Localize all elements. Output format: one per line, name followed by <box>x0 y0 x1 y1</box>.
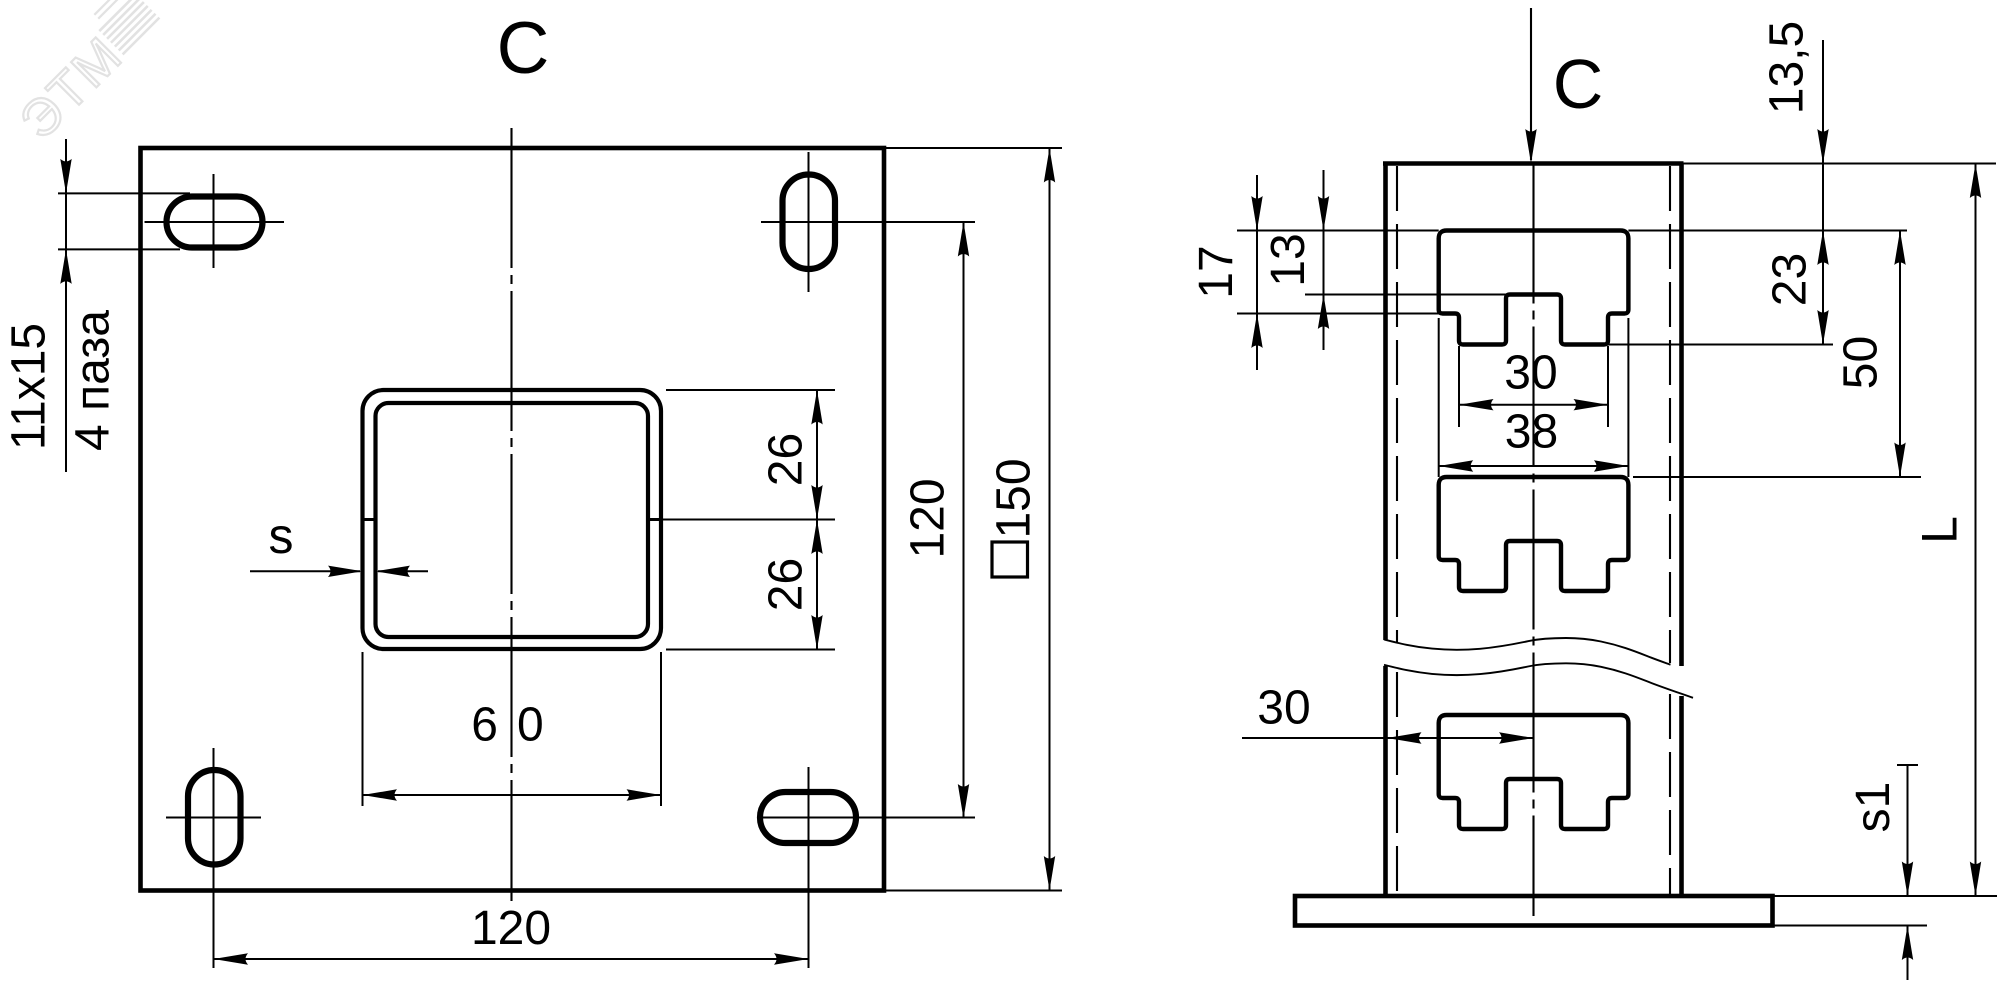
svg-text:s1: s1 <box>1847 782 1900 833</box>
square tube inner <box>376 403 649 637</box>
slot BL <box>188 770 241 865</box>
column right edge <box>1679 164 1684 897</box>
dim 60 extension lines <box>363 652 662 806</box>
dim 13 <box>1323 170 1325 350</box>
svg-text:120: 120 <box>902 478 955 558</box>
slot BL cross <box>166 748 261 968</box>
dim 150 extension lines <box>884 148 1062 891</box>
svg-text:38: 38 <box>1505 406 1558 459</box>
plate outline <box>141 148 885 891</box>
ext top edge right <box>1684 163 1997 165</box>
center line vertical <box>510 128 512 901</box>
ext base bottom right <box>1773 925 1928 927</box>
ext crown1 top left <box>1237 230 1439 232</box>
dim 120 bottom <box>214 958 809 960</box>
ext step left <box>1237 313 1459 315</box>
column top edge <box>1383 161 1684 166</box>
svg-text:s: s <box>269 508 294 564</box>
svg-text:11x15: 11x15 <box>3 323 56 450</box>
svg-text:150: 150 <box>988 458 1041 538</box>
dim 30 crown3 <box>1242 737 1534 739</box>
slot BR cross <box>757 767 975 968</box>
svg-text:60: 60 <box>471 699 562 752</box>
ext crown2 top right <box>1633 476 1921 478</box>
dim 120 right <box>963 222 965 819</box>
svg-text:C: C <box>497 8 550 89</box>
dim 38 <box>1439 318 1629 477</box>
svg-text:30: 30 <box>1257 682 1310 735</box>
dim s leader <box>250 570 428 572</box>
square tube outer <box>363 390 662 649</box>
dim 50 <box>1899 231 1901 478</box>
svg-text:17: 17 <box>1190 245 1243 298</box>
svg-text:50: 50 <box>1835 336 1888 389</box>
crown cutout 2 <box>1439 477 1629 591</box>
svg-text:23: 23 <box>1764 253 1817 306</box>
svg-text:26: 26 <box>760 558 813 611</box>
svg-text:13: 13 <box>1262 233 1315 286</box>
crown cutout 3 <box>1439 715 1629 829</box>
ext legs bottom right <box>1608 344 1833 346</box>
base plate <box>1295 896 1773 926</box>
dim 26/26 extension lines <box>663 390 836 650</box>
ext crown1 top right <box>1628 230 1907 232</box>
column left edge <box>1383 164 1388 897</box>
break wavy upper <box>1384 638 1671 665</box>
svg-text:30: 30 <box>1504 347 1557 400</box>
dim 13,5 and 23 <box>1822 40 1824 345</box>
dim s1 <box>1897 765 1918 980</box>
watermark text <box>9 26 134 151</box>
fold line left dashed <box>1396 166 1398 896</box>
slot TR cross <box>761 152 975 292</box>
slot TL <box>167 197 263 248</box>
seam tick left <box>361 518 377 521</box>
svg-text:26: 26 <box>760 433 813 486</box>
svg-text:L: L <box>1912 516 1968 544</box>
svg-text:C: C <box>1553 45 1604 123</box>
dim 17 <box>1256 175 1258 370</box>
svg-text:13,5: 13,5 <box>1761 21 1814 114</box>
slot TR <box>783 175 836 270</box>
section arrow C <box>1530 8 1532 160</box>
break wavy lower <box>1384 663 1693 698</box>
seam tick right <box>647 518 663 521</box>
crown cutout 1 <box>1439 231 1629 345</box>
slot TL cross <box>145 174 285 268</box>
watermark logo <box>89 0 160 54</box>
dim L <box>1975 164 1977 897</box>
fold line right dashed <box>1669 166 1671 896</box>
ext hump top left <box>1305 294 1506 296</box>
ext base top right <box>1773 895 1998 897</box>
dim 30 crown1 <box>1459 346 1608 427</box>
dim 11 slot extension lines <box>58 139 190 472</box>
column center line <box>1532 164 1534 917</box>
svg-text:4 паза: 4 паза <box>67 310 120 451</box>
slot BR <box>760 792 856 843</box>
svg-text:120: 120 <box>471 902 551 955</box>
